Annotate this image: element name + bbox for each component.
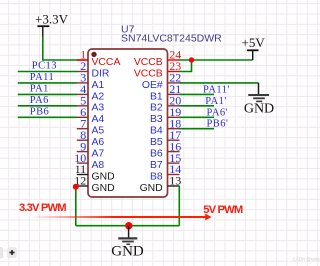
pin 13 stub bbox=[168, 185, 180, 187]
pin 9 stub bbox=[77, 151, 88, 153]
svg-text:CSDN @xxxxxx: CSDN @xxxxxx bbox=[293, 257, 320, 262]
svg-text:B6: B6 bbox=[150, 149, 163, 160]
pin 24 stub bbox=[168, 59, 180, 61]
pin 1 stub bbox=[77, 59, 88, 61]
wire PC13 to DIR bbox=[18, 71, 77, 73]
svg-text:B4: B4 bbox=[150, 126, 163, 137]
wire bottom GND horizontal bbox=[76, 225, 180, 227]
ground bottom bar3 bbox=[126, 243, 130, 245]
svg-text:B1: B1 bbox=[150, 91, 163, 102]
svg-text:GND: GND bbox=[111, 244, 144, 260]
pin 8 stub bbox=[77, 139, 88, 141]
arrowhead 5V PWM bbox=[205, 214, 211, 221]
wire PA1 to A2 bbox=[18, 93, 77, 95]
pin 22 stub bbox=[168, 82, 180, 84]
wire OE# to GND bbox=[180, 82, 259, 84]
svg-text:PA11: PA11 bbox=[30, 72, 54, 83]
junction node bottom GND bbox=[125, 222, 132, 229]
svg-text:A1: A1 bbox=[92, 80, 105, 91]
pin 7 stub bbox=[77, 128, 88, 130]
wire B1 to PA11' bbox=[180, 93, 215, 95]
svg-text:3.3V PWM: 3.3V PWM bbox=[19, 202, 66, 214]
svg-text:PB6': PB6' bbox=[207, 119, 229, 130]
pin 12 stub bbox=[77, 185, 88, 187]
svg-text:PA6: PA6 bbox=[30, 95, 49, 106]
pin 3 stub bbox=[77, 82, 88, 84]
wire +3.3V to pin 1 bbox=[43, 37, 77, 61]
svg-text:VCCA: VCCA bbox=[92, 57, 121, 68]
svg-text:PA6': PA6' bbox=[207, 107, 228, 118]
svg-text:A6: A6 bbox=[92, 137, 105, 148]
wire B3 to PA6' bbox=[180, 116, 215, 118]
ground right stem bbox=[258, 83, 260, 94]
svg-text:PC13: PC13 bbox=[32, 61, 57, 72]
ground bottom stem bbox=[128, 226, 130, 238]
svg-text:A5: A5 bbox=[92, 126, 105, 137]
component U7 body bbox=[88, 49, 168, 197]
ground right bar2 bbox=[253, 97, 265, 99]
pin 18 stub bbox=[168, 128, 180, 130]
pin 23 stub bbox=[168, 71, 180, 73]
UI button partial left bbox=[0, 248, 3, 259]
svg-text:A8: A8 bbox=[92, 160, 105, 171]
svg-text:A2: A2 bbox=[92, 91, 105, 102]
pin 6 stub bbox=[77, 116, 88, 118]
pin 1 marker dot bbox=[91, 52, 96, 57]
svg-text:B8: B8 bbox=[150, 171, 163, 182]
svg-text:B5: B5 bbox=[150, 137, 163, 148]
svg-text:A7: A7 bbox=[92, 149, 105, 160]
svg-text:VCCB: VCCB bbox=[134, 57, 163, 68]
UI button plus bbox=[8, 248, 17, 258]
power port +3.3V stem bbox=[42, 26, 44, 36]
ground bottom bar1 bbox=[118, 237, 137, 239]
svg-text:VCCB: VCCB bbox=[134, 68, 163, 79]
wire pin13 GND drop bbox=[178, 186, 180, 226]
svg-text:5V PWM: 5V PWM bbox=[203, 204, 243, 216]
power port +5V stem bbox=[252, 50, 254, 60]
pin 16 stub bbox=[168, 151, 180, 153]
junction node pin12 bbox=[73, 184, 79, 190]
svg-text:GND: GND bbox=[244, 101, 274, 116]
svg-text:B3: B3 bbox=[150, 114, 163, 125]
svg-text:A3: A3 bbox=[92, 103, 105, 114]
net wire 3.3V/5V PWM red arrow bbox=[30, 216, 206, 218]
wire PA11 to A1 bbox=[18, 82, 77, 84]
junction node pin23/24 bbox=[189, 57, 194, 62]
wire B2 to PA1' bbox=[180, 105, 215, 107]
pin 19 stub bbox=[168, 116, 180, 118]
pin 4 stub bbox=[77, 93, 88, 95]
wire PB6 to A4 bbox=[18, 116, 77, 118]
ground bottom bar2 bbox=[122, 241, 134, 243]
wire red VCCA pin 1 bbox=[77, 59, 88, 61]
pin 10 stub bbox=[77, 162, 88, 164]
svg-text:13: 13 bbox=[169, 174, 181, 188]
svg-text:OE#: OE# bbox=[142, 80, 163, 91]
wire pin24 to +5V bbox=[180, 59, 253, 61]
pin 21 stub bbox=[168, 93, 180, 95]
svg-text:GND: GND bbox=[140, 183, 163, 194]
svg-text:A4: A4 bbox=[92, 114, 105, 125]
svg-text:PB6: PB6 bbox=[30, 106, 49, 117]
pin 17 stub bbox=[168, 139, 180, 141]
svg-text:DIR: DIR bbox=[92, 68, 110, 79]
svg-text:B2: B2 bbox=[150, 103, 163, 114]
svg-text:GND: GND bbox=[92, 183, 115, 194]
pin 20 stub bbox=[168, 105, 180, 107]
svg-text:+5V: +5V bbox=[242, 35, 266, 50]
svg-text:PA11': PA11' bbox=[203, 84, 230, 95]
pin 15 stub bbox=[168, 162, 180, 164]
wire PA6 to A3 bbox=[18, 105, 77, 107]
wire branch to pin23 bbox=[180, 60, 192, 72]
ground right bar1 bbox=[248, 94, 269, 96]
power port +5V bar bbox=[247, 49, 259, 51]
svg-text:B7: B7 bbox=[150, 160, 163, 171]
svg-text:SN74LVC8T245DWR: SN74LVC8T245DWR bbox=[121, 33, 222, 45]
svg-text:PA1': PA1' bbox=[205, 96, 226, 107]
pin 14 stub bbox=[168, 174, 180, 176]
ground right bar3 bbox=[256, 100, 262, 102]
pin 11 stub bbox=[77, 174, 88, 176]
power port +3.3V bar bbox=[37, 25, 49, 27]
svg-text:+3.3V: +3.3V bbox=[35, 11, 69, 26]
pin 2 stub bbox=[77, 71, 88, 73]
wire pin12 GND drop bbox=[75, 186, 77, 226]
svg-text:GND: GND bbox=[92, 171, 115, 182]
svg-text:PA1: PA1 bbox=[30, 83, 49, 94]
pin 5 stub bbox=[77, 105, 88, 107]
wire B4 to PB6' bbox=[180, 128, 215, 130]
